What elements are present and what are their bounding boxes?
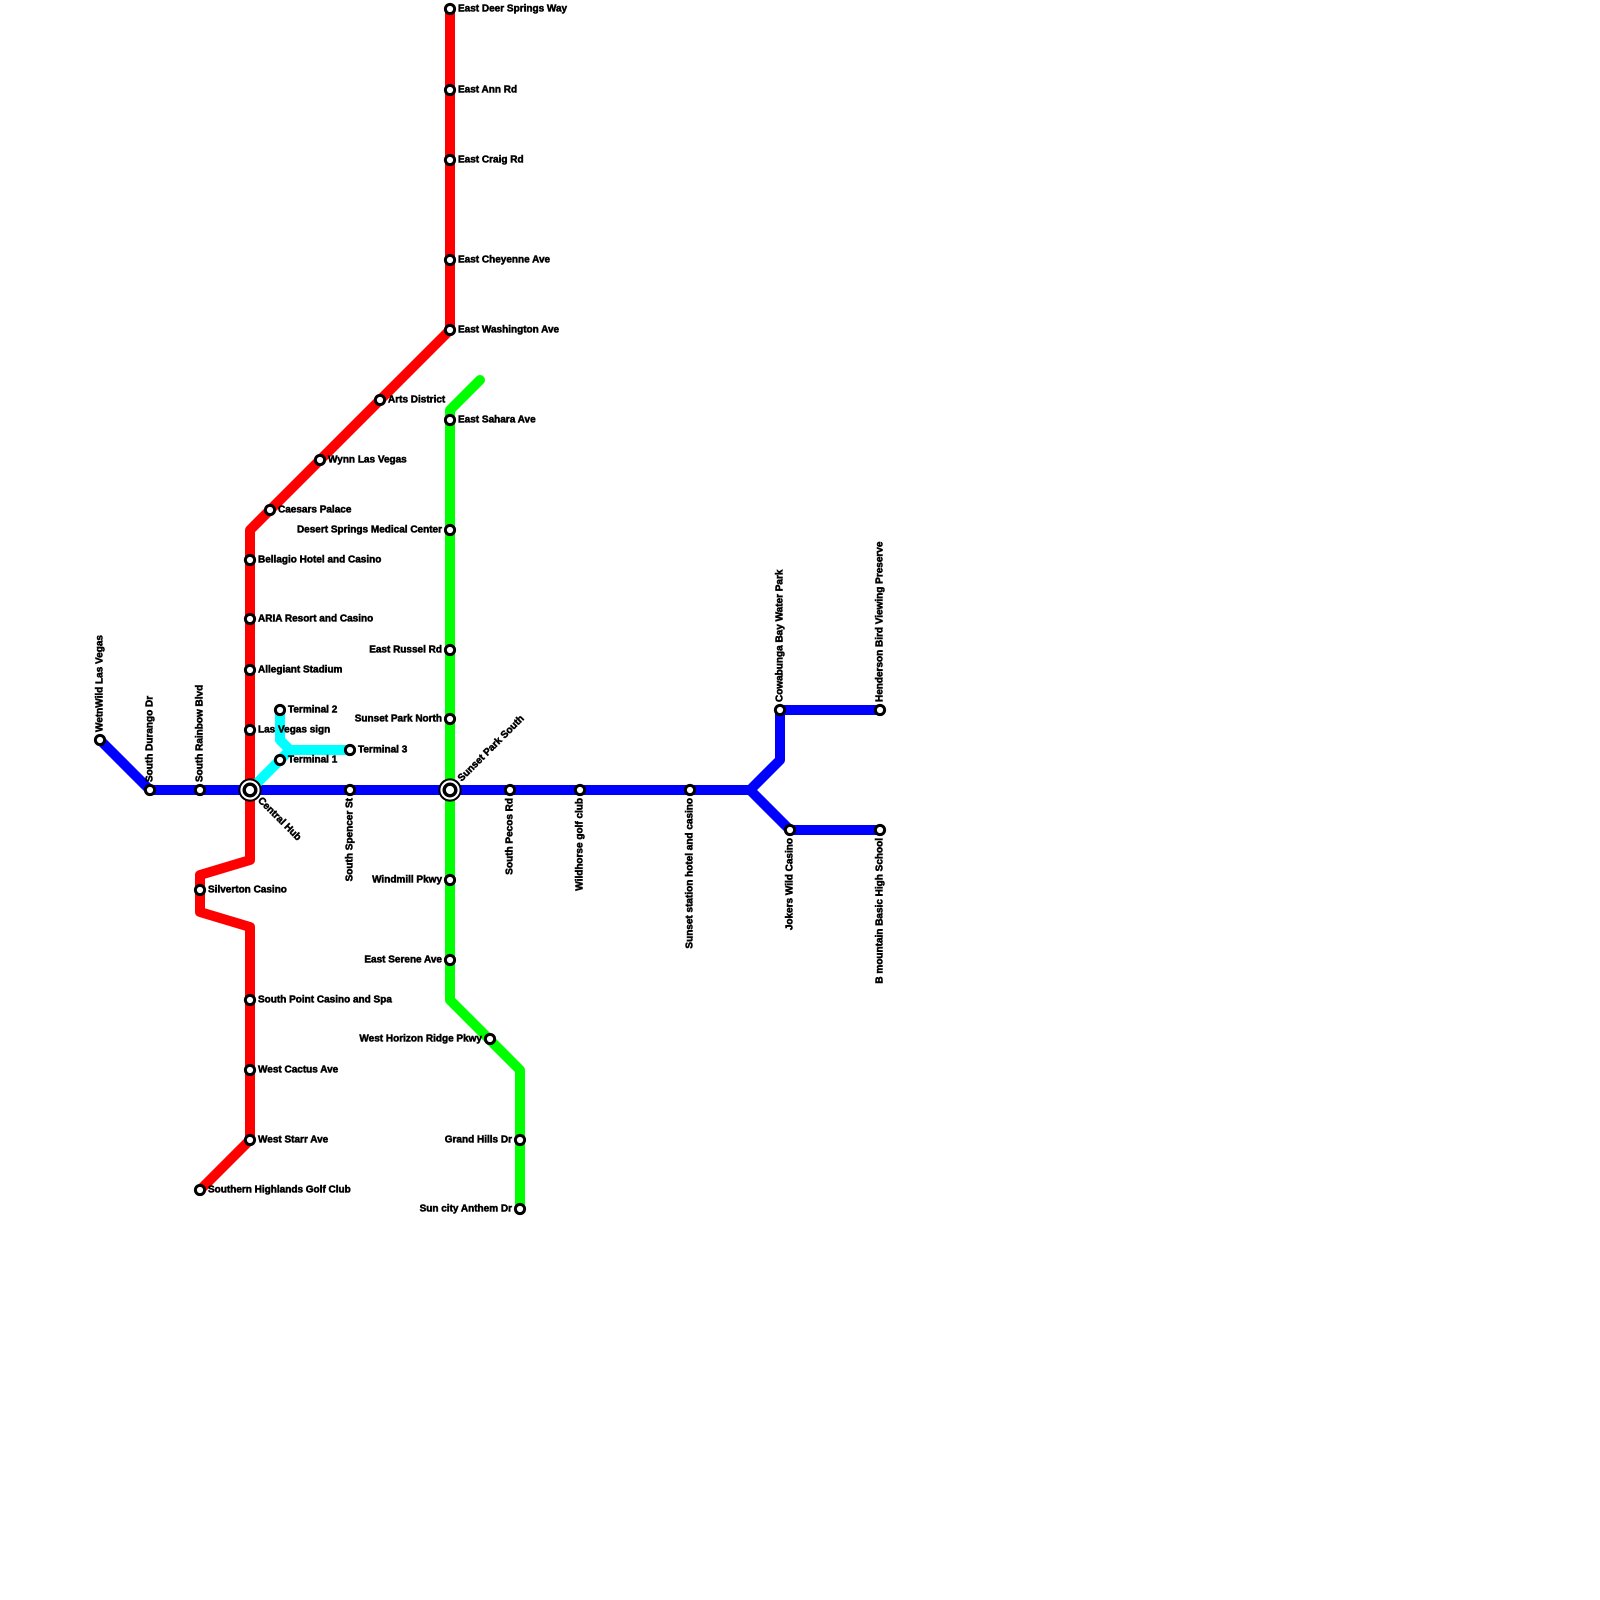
station Sunset Park North bbox=[445, 714, 454, 723]
svg-text:WetnWild Las Vegas: WetnWild Las Vegas bbox=[95, 635, 106, 732]
svg-text:Terminal 3: Terminal 3 bbox=[358, 745, 408, 756]
svg-text:Jokers Wild Casino: Jokers Wild Casino bbox=[785, 838, 796, 930]
station East Washington Ave bbox=[445, 325, 454, 334]
station ARIA Resort and Casino bbox=[245, 614, 254, 623]
station Allegiant Stadium bbox=[245, 665, 254, 674]
svg-text:South Rainbow Blvd: South Rainbow Blvd bbox=[195, 685, 206, 782]
station Terminal 1 bbox=[275, 755, 284, 764]
station Sunset station hotel and casino bbox=[685, 785, 694, 794]
cyan line (Central Hub - Terminal 3) bbox=[250, 750, 350, 790]
interchange Sunset Park South bbox=[439, 779, 460, 800]
svg-text:Sunset Park North: Sunset Park North bbox=[355, 714, 442, 725]
station Cowabunga Bay Water Park bbox=[775, 705, 784, 714]
station Silverton Casino bbox=[195, 885, 204, 894]
svg-text:Caesars Palace: Caesars Palace bbox=[278, 505, 352, 516]
svg-text:West Starr Ave: West Starr Ave bbox=[258, 1135, 329, 1146]
svg-text:Wynn Las Vegas: Wynn Las Vegas bbox=[328, 455, 407, 466]
station Windmill Pkwy bbox=[445, 875, 454, 884]
svg-text:Terminal 2: Terminal 2 bbox=[288, 705, 338, 716]
svg-text:East Serene Ave: East Serene Ave bbox=[364, 955, 442, 966]
svg-text:Silverton Casino: Silverton Casino bbox=[208, 885, 287, 896]
station Arts District bbox=[375, 395, 384, 404]
station Las Vegas sign bbox=[245, 725, 254, 734]
red line (East Deer Springs Way - Southern Highlands Golf Club) bbox=[200, 9, 450, 1190]
station Sun city Anthem Dr bbox=[515, 1204, 524, 1213]
svg-text:South Durango Dr: South Durango Dr bbox=[145, 696, 156, 782]
station East Deer Springs Way bbox=[445, 4, 454, 13]
svg-text:Terminal 1: Terminal 1 bbox=[288, 755, 338, 766]
svg-text:East Craig Rd: East Craig Rd bbox=[458, 155, 524, 166]
svg-text:Las Vegas sign: Las Vegas sign bbox=[258, 725, 330, 736]
svg-text:West Cactus Ave: West Cactus Ave bbox=[258, 1065, 339, 1076]
svg-text:Allegiant Stadium: Allegiant Stadium bbox=[258, 665, 343, 676]
svg-text:South Point Casino and Spa: South Point Casino and Spa bbox=[258, 995, 392, 1006]
station East Craig Rd bbox=[445, 155, 454, 164]
station West Starr Ave bbox=[245, 1135, 254, 1144]
station WetnWild Las Vegas bbox=[95, 735, 104, 744]
station South Rainbow Blvd bbox=[195, 785, 204, 794]
svg-text:South Pecos Rd: South Pecos Rd bbox=[505, 798, 516, 875]
svg-text:East Russel Rd: East Russel Rd bbox=[369, 645, 442, 656]
svg-text:East Washington Ave: East Washington Ave bbox=[458, 325, 560, 336]
svg-text:Cowabunga Bay Water Park: Cowabunga Bay Water Park bbox=[775, 569, 786, 702]
station Wynn Las Vegas bbox=[315, 455, 324, 464]
station South Durango Dr bbox=[145, 785, 154, 794]
svg-text:Henderson Bird Viewing Preserv: Henderson Bird Viewing Preserve bbox=[875, 541, 886, 702]
blue line north branch (fork - Henderson Bird Viewing Preserve) bbox=[750, 710, 880, 790]
blue line south branch (fork - B mountain Basic High School) bbox=[750, 790, 880, 830]
svg-text:East Sahara Ave: East Sahara Ave bbox=[458, 415, 536, 426]
station Terminal 3 bbox=[345, 745, 354, 754]
station Jokers Wild Casino bbox=[785, 825, 794, 834]
station South Pecos Rd bbox=[505, 785, 514, 794]
svg-text:West Horizon Ridge Pkwy: West Horizon Ridge Pkwy bbox=[359, 1034, 482, 1045]
svg-text:Windmill Pkwy: Windmill Pkwy bbox=[372, 875, 442, 886]
svg-text:Southern Highlands Golf Club: Southern Highlands Golf Club bbox=[208, 1185, 351, 1196]
svg-text:Grand Hills Dr: Grand Hills Dr bbox=[445, 1135, 512, 1146]
cyan line spur (Terminal 2 - junction) bbox=[280, 710, 290, 750]
station Wildhorse golf club bbox=[575, 785, 584, 794]
svg-text:Arts District: Arts District bbox=[388, 395, 446, 406]
station West Horizon Ridge Pkwy bbox=[485, 1034, 494, 1043]
station Henderson Bird Viewing Preserve bbox=[875, 705, 884, 714]
svg-text:Bellagio Hotel and Casino: Bellagio Hotel and Casino bbox=[258, 555, 381, 566]
station Desert Springs Medical Center bbox=[445, 525, 454, 534]
station Terminal 2 bbox=[275, 705, 284, 714]
station B mountain Basic High School bbox=[875, 825, 884, 834]
station East Serene Ave bbox=[445, 955, 454, 964]
station South Point Casino and Spa bbox=[245, 995, 254, 1004]
station East Russel Rd bbox=[445, 645, 454, 654]
svg-text:B mountain Basic High School: B mountain Basic High School bbox=[875, 838, 886, 984]
station Caesars Palace bbox=[265, 505, 274, 514]
station East Ann Rd bbox=[445, 85, 454, 94]
svg-text:Wildhorse golf club: Wildhorse golf club bbox=[575, 798, 586, 891]
svg-text:Sun city Anthem Dr: Sun city Anthem Dr bbox=[420, 1204, 513, 1215]
svg-text:ARIA Resort and Casino: ARIA Resort and Casino bbox=[258, 614, 373, 625]
station South Spencer St bbox=[345, 785, 354, 794]
green line (north stub - Sun city Anthem Dr) bbox=[450, 380, 520, 1209]
svg-text:Desert Springs Medical Center: Desert Springs Medical Center bbox=[297, 525, 442, 536]
blue line trunk (WetnWild Las Vegas - fork) bbox=[100, 740, 750, 790]
station Grand Hills Dr bbox=[515, 1135, 524, 1144]
station Southern Highlands Golf Club bbox=[195, 1185, 204, 1194]
station West Cactus Ave bbox=[245, 1065, 254, 1074]
svg-text:East Deer Springs Way: East Deer Springs Way bbox=[458, 4, 568, 15]
svg-text:East Ann Rd: East Ann Rd bbox=[458, 85, 517, 96]
station Bellagio Hotel and Casino bbox=[245, 555, 254, 564]
interchange Central Hub bbox=[239, 779, 260, 800]
station East Sahara Ave bbox=[445, 415, 454, 424]
svg-text:South Spencer St: South Spencer St bbox=[345, 797, 356, 881]
station East Cheyenne Ave bbox=[445, 255, 454, 264]
svg-text:East Cheyenne Ave: East Cheyenne Ave bbox=[458, 255, 551, 266]
svg-text:Sunset station hotel and casin: Sunset station hotel and casino bbox=[685, 798, 696, 949]
